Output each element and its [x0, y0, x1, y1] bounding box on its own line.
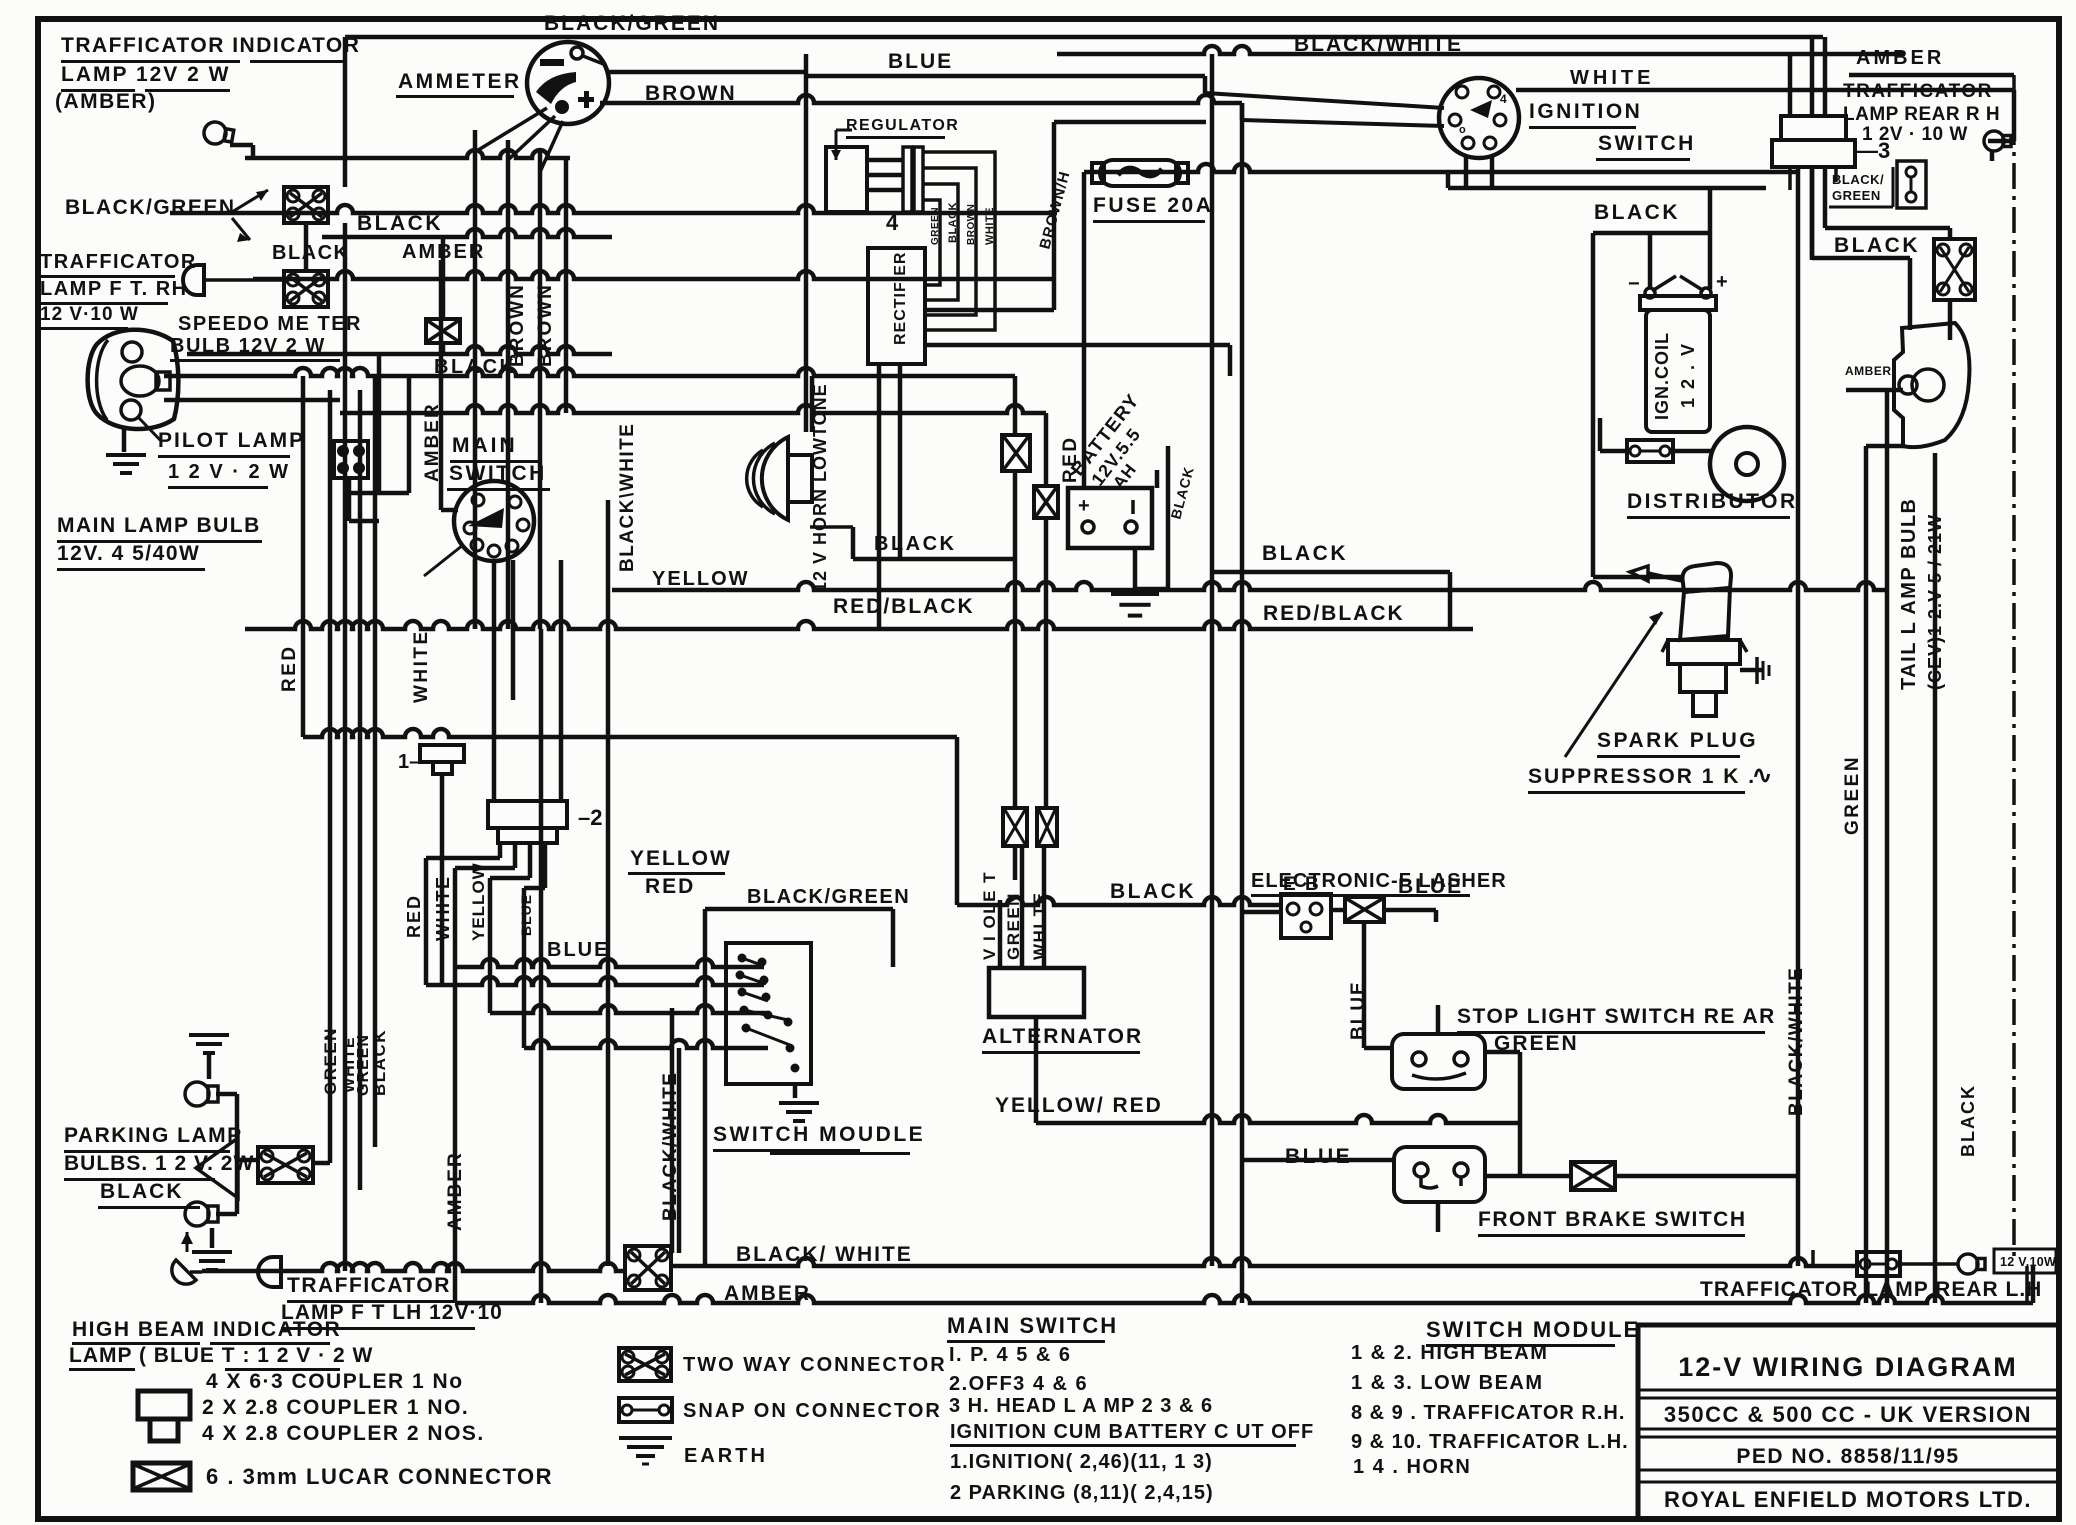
wire fuse row: [1084, 164, 1798, 172]
rear LH lamp box: [1811, 1250, 2029, 1302]
wire headlamp row3: [164, 398, 340, 403]
pilot lamp connector: [334, 441, 368, 478]
wire regulator-fuse vertical: [1052, 122, 1057, 310]
wire regulator to connector bars: [867, 158, 903, 193]
svg-text:LAMP ( BLUE T : 1 2 V · 2 W: LAMP ( BLUE T : 1 2 V · 2 W: [69, 1344, 373, 1367]
wire front brake stem down: [1436, 1202, 1441, 1232]
svg-text:TRAFFICATOR LAMP REAR L.H: TRAFFICATOR LAMP REAR L.H: [1700, 1278, 2042, 1301]
svg-text:GREEN: GREEN: [1842, 755, 1863, 835]
svg-text:AMBER: AMBER: [402, 241, 485, 263]
svg-text:BLACK/WHITE: BLACK/WHITE: [660, 1072, 681, 1221]
wire flasher left stub: [1244, 910, 1281, 915]
svg-text:12-V WIRING DIAGRAM: 12-V WIRING DIAGRAM: [1678, 1352, 2018, 1382]
svg-text:IGN.COIL: IGN.COIL: [1652, 332, 1672, 420]
label 12V10W small right boxed: [1994, 1249, 2056, 1273]
horn 12V low tone: [747, 437, 812, 520]
wire BLUE vertical flasher-stoplight: [1362, 922, 1367, 1048]
svg-text:1 4 . HORN: 1 4 . HORN: [1353, 1456, 1471, 1478]
wire lucar to black/white vertical: [1615, 1174, 1798, 1179]
battery 12V: [1068, 488, 1152, 548]
svg-text:RED/BLACK: RED/BLACK: [1263, 602, 1405, 625]
label SPEEDO METER BULB 12V 2W: [170, 313, 362, 362]
wire GREEN stop light drop: [1518, 1052, 1523, 1176]
connector 2 coupler: [488, 801, 602, 843]
svg-text:1.IGNITION( 2,46)(11, 1 3): 1.IGNITION( 2,46)(11, 1 3): [950, 1451, 1213, 1473]
svg-text:GREEN: GREEN: [930, 207, 941, 245]
svg-text:BLACK: BLACK: [1262, 542, 1348, 565]
svg-text:BLACK: BLACK: [370, 1029, 389, 1096]
wire pilot lamp connector stems: [347, 478, 379, 523]
wire left bundle verticals: [303, 376, 377, 1271]
rectifier: [868, 248, 925, 364]
svg-text:GREEN: GREEN: [1004, 892, 1023, 960]
svg-text:EARTH: EARTH: [684, 1445, 768, 1467]
svg-text:WHITE: WHITE: [433, 876, 453, 942]
svg-text:ALTERNATOR: ALTERNATOR: [982, 1025, 1143, 1048]
wire row y737: [303, 729, 957, 737]
snap connector distributor: [1627, 440, 1673, 462]
svg-text:AMBER: AMBER: [724, 1282, 811, 1305]
svg-text:LAMP F T LH 12V·10: LAMP F T LH 12V·10: [281, 1301, 503, 1324]
svg-text:BULBS. 1 2 V. 2W: BULBS. 1 2 V. 2W: [64, 1152, 254, 1175]
wire speedo row: [187, 346, 612, 354]
wire rectifier drops: [877, 364, 882, 629]
svg-text:AMBER: AMBER: [422, 402, 443, 482]
svg-text:PILOT LAMP: PILOT LAMP: [158, 429, 305, 452]
svg-text:BROWN: BROWN: [645, 82, 737, 105]
svg-text:RECTIFIER: RECTIFIER: [892, 252, 909, 345]
svg-text:BLACK/WHITE: BLACK/WHITE: [1294, 33, 1463, 56]
wire BROWN top: [600, 95, 1242, 103]
wire row y158 left: [245, 150, 570, 158]
svg-text:SPARK PLUG: SPARK PLUG: [1597, 729, 1758, 752]
label FRONT BRAKE SWITCH: [1478, 1208, 1746, 1237]
svg-text:RED/BLACK: RED/BLACK: [833, 595, 975, 618]
wire BLACK/WHITE top: [1057, 46, 1905, 54]
switch symbol right: [1897, 161, 1926, 208]
label DISTRIBUTOR: [1627, 490, 1798, 519]
svg-text:BLACK\WHITE: BLACK\WHITE: [617, 423, 638, 572]
svg-text:RED: RED: [279, 644, 300, 692]
wire right vertical 1887: [1885, 390, 1890, 1303]
svg-text:E B: E B: [1283, 874, 1321, 895]
wire trafficator plug drops right: [1788, 37, 1828, 116]
svg-text:BLUE: BLUE: [888, 50, 953, 73]
svg-text:∿: ∿: [1752, 762, 1772, 789]
spark plug earth: [1742, 657, 1769, 684]
wire BLACK coil loop: [1593, 231, 1710, 236]
arrow to black/green: [232, 190, 268, 242]
wire alternator stems: [998, 376, 1049, 968]
alternator: [989, 968, 1084, 1017]
svg-text:BLACK: BLACK: [434, 356, 517, 378]
connector 4 bars: [886, 147, 923, 235]
wire amber bulb stub: [1846, 388, 1903, 393]
wire main vertical 1212: [1210, 54, 1215, 1266]
wire BLACK/GREEN top bus: [345, 35, 1823, 40]
svg-text:WHI TE: WHI TE: [1030, 892, 1049, 961]
svg-text:4 X 2.8 COUPLER 2 NOS.: 4 X 2.8 COUPLER 2 NOS.: [202, 1422, 485, 1445]
wire connector2 stems down: [424, 843, 548, 1048]
wire connector1 stem: [440, 774, 445, 985]
wire battery earth stem: [1133, 548, 1138, 589]
wire amber inner right: [1849, 73, 2014, 78]
switch module earth: [779, 1101, 819, 1123]
svg-text:1 & 2. HIGH BEAM: 1 & 2. HIGH BEAM: [1351, 1342, 1548, 1364]
two-way connector bottom mid: [625, 1246, 671, 1290]
ignition coil: [1628, 271, 1728, 432]
label YELLOW RED mid-left: [628, 847, 732, 898]
label AMMETER: [396, 70, 522, 98]
label TRAFFICATOR LAMP REAR RH 12V-10W: [1843, 81, 2000, 145]
svg-text:I. P. 4 5 & 6: I. P. 4 5 & 6: [949, 1344, 1072, 1366]
lucar connector alternator 2: [1034, 486, 1058, 518]
wire parking earth top stem: [207, 1052, 212, 1079]
wire front brake to lucar: [1485, 1174, 1571, 1179]
wire lamp rear RH bulb feed: [1988, 90, 2016, 143]
legend lucar connector symbol: [133, 1463, 190, 1490]
svg-text:(AMBER): (AMBER): [55, 90, 156, 113]
wire black/green drop to bottom row: [703, 909, 708, 1266]
labels on rectifier loops: [930, 202, 996, 245]
main switch: [424, 481, 534, 576]
svg-text:BLACK: BLACK: [1110, 880, 1196, 903]
label TRAFFICATOR LAMP FT.RH 12V-10W: [40, 251, 197, 330]
svg-text:RED: RED: [645, 875, 695, 898]
svg-text:9 & 10. TRAFFICATOR L.H.: 9 & 10. TRAFFICATOR L.H.: [1351, 1431, 1629, 1453]
svg-text:–2: –2: [578, 805, 602, 830]
label STOP LIGHT SWITCH REAR: [1457, 1005, 1776, 1034]
wire BLUE front brake row: [1244, 1158, 1394, 1163]
svg-text:WHITE: WHITE: [411, 629, 432, 703]
wire YELLOW/RED alternator row: [1036, 1115, 1520, 1123]
svg-text:BLACK/WHITE: BLACK/WHITE: [1786, 967, 1807, 1116]
wire row y376: [164, 368, 1015, 376]
svg-text:YELLOW: YELLOW: [469, 862, 488, 941]
svg-text:GREEN: GREEN: [321, 1027, 340, 1095]
wire rear RH bulb stub: [1990, 151, 1995, 161]
wire BLACK/WHITE vertical right: [1796, 590, 1801, 1266]
wire row below ignition switch: [1448, 186, 1766, 191]
trafficator indicator lamp bulb: [202, 120, 234, 147]
svg-text:AMBER: AMBER: [1856, 47, 1944, 69]
label MAIN LAMP BULB 12V.45/40W: [57, 514, 262, 571]
wire right vertical black 1935: [1933, 453, 1938, 1303]
svg-text:TRAFFICATOR INDICATOR: TRAFFICATOR INDICATOR: [61, 34, 360, 57]
svg-text:BLACK: BLACK: [947, 202, 959, 243]
svg-text:SNAP ON CONNECTOR: SNAP ON CONNECTOR: [683, 1400, 942, 1422]
svg-text:STOP LIGHT SWITCH RE AR: STOP LIGHT SWITCH RE AR: [1457, 1005, 1776, 1028]
label IGNITION SWITCH: [1529, 100, 1696, 161]
svg-text:BROWN: BROWN: [507, 283, 528, 367]
connector 1 coupler: [398, 745, 464, 774]
svg-text:8 & 9 . TRAFFICATOR R.H.: 8 & 9 . TRAFFICATOR R.H.: [1351, 1402, 1625, 1424]
wire YELLOW row: [612, 582, 1887, 590]
svg-text:2 X 2.8 COUPLER 1 NO.: 2 X 2.8 COUPLER 1 NO.: [202, 1396, 469, 1419]
parking lamp bulb top: [185, 1082, 218, 1106]
svg-text:IGNITION: IGNITION: [1529, 100, 1642, 123]
wire plug to lamps right: [1796, 167, 1953, 590]
svg-text:1–: 1–: [398, 751, 420, 773]
wire parking lamp link: [216, 1092, 258, 1217]
svg-text:350CC & 500 CC - UK VERSION: 350CC & 500 CC - UK VERSION: [1664, 1402, 2032, 1427]
wire main switch entries: [441, 508, 515, 801]
legend snap-on connector symbol: [619, 1398, 672, 1422]
wire stoplight stem up: [1436, 1005, 1441, 1034]
distributor: [1710, 427, 1784, 501]
svg-text:YELLOW/ RED: YELLOW/ RED: [995, 1094, 1163, 1117]
wire trafficator indicator lamp drop: [230, 143, 347, 390]
svg-text:TRAFFICATOR: TRAFFICATOR: [40, 251, 197, 273]
svg-text:1 & 3. LOW BEAM: 1 & 3. LOW BEAM: [1351, 1372, 1544, 1394]
svg-text:YELLOW: YELLOW: [630, 847, 732, 870]
wire distributor snap stubs: [1673, 449, 1711, 454]
svg-text:+: +: [1078, 495, 1090, 517]
electronic flasher: [1281, 894, 1331, 938]
wire horn feeds: [810, 376, 815, 432]
wire main vertical 1242: [1240, 103, 1245, 1303]
svg-text:RED: RED: [404, 894, 424, 938]
svg-text:BLUE: BLUE: [1398, 875, 1463, 898]
wire right dash-dot vertical: [2012, 75, 2016, 1260]
wire ammeter bundle verticals: [473, 130, 569, 629]
wire rear LH bulb stub: [1900, 1262, 1958, 1266]
wire tail lamp bulb stub: [1866, 444, 1905, 449]
svg-text:V I OLE T: V I OLE T: [980, 871, 999, 960]
svg-text:BLUE: BLUE: [518, 894, 534, 936]
svg-text:GREEN: GREEN: [1832, 188, 1881, 203]
wire WHITE ignition right: [1516, 88, 2014, 93]
wire drop left from BLACK/GREEN bus: [343, 37, 348, 187]
svg-text:4: 4: [886, 210, 899, 235]
svg-text:AMBER: AMBER: [445, 1151, 466, 1231]
svg-text:MAIN: MAIN: [452, 434, 518, 457]
wire ignition switch neck: [1464, 155, 1469, 188]
svg-text:o: o: [1459, 124, 1466, 136]
svg-text:SWITCH: SWITCH: [1598, 132, 1696, 155]
svg-text:BROWN: BROWN: [535, 283, 556, 367]
wire battery right black vertical: [1166, 446, 1171, 589]
label TRAFFICATOR LAMP FT LH 12V-10: [281, 1274, 503, 1330]
svg-text:4 X 6·3 COUPLER 1 No: 4 X 6·3 COUPLER 1 No: [206, 1370, 464, 1393]
wire switch module earth stem: [793, 1084, 798, 1098]
svg-text:BLACK/ WHITE: BLACK/ WHITE: [736, 1243, 913, 1266]
wire row y413: [340, 405, 1046, 413]
label PILOT LAMP 12V.2W: [158, 429, 305, 489]
svg-text:PED NO. 8858/11/95: PED NO. 8858/11/95: [1736, 1445, 1959, 1468]
wire row y279: [253, 271, 1054, 279]
wire AMBER bottom row: [455, 1295, 2033, 1303]
svg-text:DISTRIBUTOR: DISTRIBUTOR: [1627, 490, 1798, 513]
ammeter: [527, 42, 609, 124]
wire right bottom corner verticals: [2031, 1266, 2036, 1303]
two-way connector parking: [258, 1147, 313, 1183]
svg-text:TRAFFICATOR: TRAFFICATOR: [287, 1274, 451, 1297]
wire main switch down bundle: [539, 500, 675, 1303]
lucar connector alternator lower 2: [1037, 808, 1057, 846]
svg-text:IGNITION CUM BATTERY C UT O: IGNITION CUM BATTERY C UT OFF: [950, 1421, 1314, 1443]
svg-text:GREEN: GREEN: [1494, 1032, 1579, 1055]
trafficator lamp FT RH bulb: [183, 265, 284, 295]
wire fuse to battery vertical: [1082, 172, 1087, 488]
label BLACK/GREEN boxed small: [1829, 167, 1895, 209]
label TAIL LAMP BULB (CEV)12V 5/21W vertical: [1898, 498, 1945, 691]
svg-text:AMMETER: AMMETER: [398, 70, 522, 93]
trafficator FT LH bulb: [258, 1257, 300, 1287]
svg-text:TRAFFICATOR: TRAFFICATOR: [1843, 81, 1993, 102]
svg-text:6 . 3mm LUCAR CONNECTOR: 6 . 3mm LUCAR CONNECTOR: [206, 1464, 553, 1489]
headlamp earth: [106, 453, 146, 475]
two-way connector right: [1934, 239, 1975, 300]
label VIOLET GREEN WHITE vertical: [980, 871, 1049, 960]
svg-text:AMBER: AMBER: [1845, 364, 1892, 378]
wire high beam bulb stub: [202, 1269, 300, 1274]
label IGN COIL 12V: [1652, 332, 1698, 420]
svg-text:PARKING LAMP: PARKING LAMP: [64, 1124, 243, 1147]
label REGULATOR: [846, 117, 959, 139]
high beam indicator bulb: [172, 1232, 202, 1284]
label FUSE 20A: [1093, 194, 1213, 223]
svg-text:1 2V · 10 W: 1 2V · 10 W: [1862, 124, 1968, 145]
wire headlamp drops: [349, 354, 411, 495]
svg-text:SWITCH MODULE: SWITCH MODULE: [1426, 1317, 1640, 1342]
label SWITCH MOUDLE: [713, 1123, 925, 1155]
two-way connector top left 1: [284, 187, 328, 223]
legend two-way connector symbol: [619, 1348, 671, 1381]
wire parking earth bottom stem: [210, 1228, 215, 1248]
svg-text:BLACK: BLACK: [357, 212, 443, 235]
parking lamp earth top: [189, 1033, 229, 1055]
svg-text:BROWN: BROWN: [966, 204, 977, 245]
battery earth: [1111, 592, 1159, 618]
label ALTERNATOR: [982, 1025, 1143, 1054]
svg-text:2 PARKING (8,11)( 2,4,15): 2 PARKING (8,11)( 2,4,15): [950, 1482, 1214, 1504]
wire two-way connector to tail lamp: [1948, 300, 1953, 340]
svg-text:+: +: [1716, 271, 1728, 293]
wire spark plug earth lead: [1740, 668, 1762, 673]
svg-text:LAMP REAR R H: LAMP REAR R H: [1843, 104, 2000, 125]
legend earth symbol: [619, 1436, 672, 1466]
wire lucar to blue corner: [1384, 908, 1436, 913]
svg-text:SUPPRESSOR 1 K .: SUPPRESSOR 1 K .: [1528, 765, 1756, 788]
svg-text:TAIL L AMP BULB: TAIL L AMP BULB: [1898, 498, 1920, 691]
svg-text:BLACK/GREEN: BLACK/GREEN: [65, 196, 236, 219]
wire black/white drop short: [677, 1048, 682, 1253]
svg-text:ROYAL ENFIELD MOTORS LTD.: ROYAL ENFIELD MOTORS LTD.: [1664, 1487, 2032, 1512]
headlamp main lamp: [88, 330, 179, 429]
wire GREEN vertical tail lamp: [1864, 446, 1869, 1303]
svg-text:FRONT BRAKE SWITCH: FRONT BRAKE SWITCH: [1478, 1208, 1746, 1231]
svg-text:TWO WAY CONNECTOR: TWO WAY CONNECTOR: [683, 1354, 947, 1376]
wire BLACK flasher row: [957, 897, 1281, 905]
wire row y213 left: [170, 205, 1057, 213]
svg-text:BLACK: BLACK: [272, 242, 350, 264]
svg-text:2.OFF3 4 & 6: 2.OFF3 4 & 6: [949, 1373, 1088, 1395]
label MAIN SWITCH component: [447, 434, 550, 491]
front brake switch: [1394, 1147, 1485, 1202]
regulator: [826, 129, 867, 213]
lucar connector speedo: [426, 319, 460, 343]
wire RED/BLACK row: [245, 621, 1473, 629]
svg-text:12 V HORN LOWTONE: 12 V HORN LOWTONE: [810, 383, 830, 592]
svg-text:12 V·10 W: 12 V·10 W: [40, 304, 139, 325]
svg-text:BLACK/: BLACK/: [1832, 172, 1884, 187]
svg-text:BULB 12V 2 W: BULB 12V 2 W: [170, 335, 326, 357]
svg-text:−: −: [1628, 273, 1640, 295]
svg-text:BLACK: BLACK: [100, 1180, 184, 1203]
wire flasher to lucar: [1331, 908, 1345, 913]
trafficator rear LH bulb: [1958, 1254, 1985, 1274]
svg-text:YELLOW: YELLOW: [652, 568, 750, 590]
wire headlamp earth stem: [122, 428, 127, 452]
svg-text:SWITCH MOUDLE: SWITCH MOUDLE: [713, 1123, 925, 1146]
two-way connector top left 2: [284, 271, 328, 307]
svg-text:3 H. HEAD L A MP 2 3 & 6: 3 H. HEAD L A MP 2 3 & 6: [949, 1395, 1213, 1417]
svg-text:MAIN SWITCH: MAIN SWITCH: [947, 1313, 1118, 1338]
tail lamp: [1894, 323, 1969, 447]
legend coupler symbol: [138, 1391, 190, 1441]
svg-text:SWITCH: SWITCH: [449, 462, 547, 485]
svg-text:12 V.10W: 12 V.10W: [2000, 1255, 2056, 1269]
suppressor arrow: [1565, 612, 1662, 757]
wire BLUE vertical mid: [804, 72, 809, 432]
wire horn bottom drop: [810, 525, 853, 529]
label BATTERY 12V 5.5 AH: [1067, 390, 1144, 493]
label ELECTRONIC FLASHER: [1251, 870, 1507, 897]
svg-text:(CEV)1 2.V 5 / 21W: (CEV)1 2.V 5 / 21W: [1925, 514, 1945, 690]
wire row y237: [322, 229, 612, 237]
wire rectifier nested loops: [922, 152, 995, 330]
svg-text:1 2 . V: 1 2 . V: [1678, 342, 1698, 408]
wire alternator bottom stem: [1034, 1017, 1039, 1123]
wire rectifier black output: [925, 343, 1232, 376]
wire ammeter fan diagonals: [475, 108, 563, 172]
switch module: [726, 943, 811, 1084]
parking lamp bulb bottom: [185, 1202, 218, 1226]
label SPARK PLUG / SUPPRESSOR 1K: [1528, 729, 1772, 794]
wire battery minus to black row: [1155, 470, 1160, 488]
wire BLACK horn row: [853, 557, 1015, 562]
wire AMBER vertical to main switch: [439, 260, 444, 510]
svg-text:12V. 4 5/40W: 12V. 4 5/40W: [57, 542, 200, 565]
label TRAFFICATOR INDICATOR LAMP 12V 2W (AMBER): [55, 34, 360, 113]
svg-text:BLACK: BLACK: [1958, 1084, 1978, 1157]
svg-text:LAMP 12V 2 W: LAMP 12V 2 W: [61, 63, 230, 86]
svg-text:REGULATOR: REGULATOR: [846, 117, 959, 134]
fuse 20A capsule: [1092, 160, 1188, 186]
spark plug suppressor: [1630, 563, 1747, 716]
wire snap to coil: [1598, 418, 1627, 453]
svg-text:BLACK: BLACK: [1834, 234, 1920, 257]
lucar connector alternator 1: [1002, 435, 1030, 471]
svg-text:BLACK: BLACK: [874, 533, 957, 555]
svg-text:WHITE: WHITE: [1570, 67, 1654, 89]
wire BLACK right row: [1212, 570, 1450, 575]
wire AMBER vertical lower: [453, 967, 458, 1303]
svg-text:BLUE: BLUE: [547, 939, 609, 961]
label PARKING LAMP BULBS 12V 2W BLACK: [64, 1124, 254, 1209]
svg-text:1 2 V · 2 W: 1 2 V · 2 W: [168, 461, 290, 483]
ignition switch: [1439, 78, 1519, 158]
svg-text:BLACK: BLACK: [1594, 201, 1680, 224]
svg-text:BLUE: BLUE: [1348, 980, 1369, 1040]
svg-text:BLACK/GREEN: BLACK/GREEN: [544, 12, 720, 35]
svg-text:SPEEDO ME TER: SPEEDO ME TER: [178, 313, 362, 335]
wire BLACK coil feed right: [1810, 167, 1815, 258]
svg-text:4: 4: [1500, 92, 1507, 106]
wire speedo connector stubs: [441, 237, 446, 354]
wire ignition feeds left: [1203, 76, 1444, 126]
